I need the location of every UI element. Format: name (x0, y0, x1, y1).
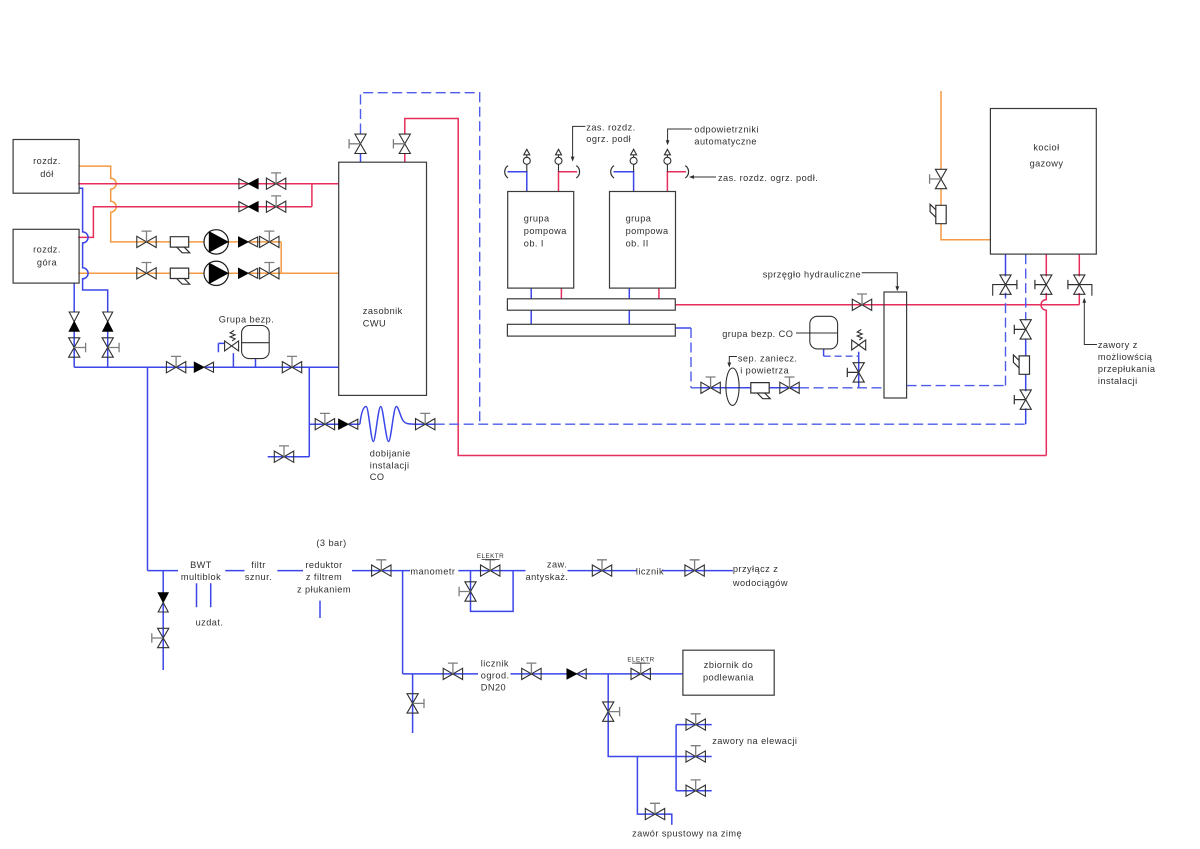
svg-text:(3 bar): (3 bar) (316, 538, 346, 548)
svg-text:antyskaż.: antyskaż. (526, 572, 569, 582)
svg-text:zawór spustowy na zimę: zawór spustowy na zimę (632, 829, 742, 839)
svg-text:CO: CO (370, 472, 385, 482)
svg-text:pompowa: pompowa (626, 226, 669, 236)
svg-text:uzdat.: uzdat. (196, 618, 224, 628)
svg-text:DN20: DN20 (481, 683, 506, 693)
svg-text:gazowy: gazowy (1030, 159, 1064, 169)
svg-text:zas. rozdz.: zas. rozdz. (586, 122, 635, 132)
svg-text:manometr: manometr (410, 567, 455, 577)
svg-text:grupa: grupa (524, 214, 550, 224)
svg-text:automatyczne: automatyczne (694, 137, 757, 147)
svg-text:BWT: BWT (190, 560, 212, 570)
svg-text:kocioł: kocioł (1033, 143, 1059, 153)
svg-text:zawory na elewacji: zawory na elewacji (712, 736, 797, 746)
svg-text:ob. I: ob. I (524, 239, 544, 249)
svg-text:ELEKTR: ELEKTR (627, 657, 654, 664)
svg-text:reduktor: reduktor (305, 560, 342, 570)
svg-text:dół: dół (40, 169, 54, 179)
svg-text:ob. II: ob. II (626, 239, 649, 249)
svg-text:przyłącz z: przyłącz z (733, 564, 778, 574)
svg-text:możliowścią: możliowścią (1098, 352, 1153, 362)
svg-text:sznur.: sznur. (245, 572, 272, 582)
svg-text:licznik: licznik (636, 567, 664, 577)
svg-text:filtr: filtr (251, 560, 266, 570)
svg-text:ogrod.: ogrod. (481, 671, 510, 681)
svg-text:sprzęgło hydrauliczne: sprzęgło hydrauliczne (763, 269, 861, 279)
svg-text:zbiornik do: zbiornik do (704, 660, 753, 670)
svg-text:Grupa bezp.: Grupa bezp. (219, 315, 275, 325)
svg-text:pompowa: pompowa (524, 226, 567, 236)
svg-text:grupa: grupa (626, 214, 652, 224)
svg-text:sep. zaniecz.: sep. zaniecz. (738, 353, 797, 363)
svg-text:zaw.: zaw. (547, 560, 567, 570)
svg-text:instalacji: instalacji (370, 461, 410, 471)
svg-text:CWU: CWU (363, 319, 386, 329)
svg-text:rozdz.: rozdz. (33, 245, 61, 255)
svg-text:rozdz.: rozdz. (33, 156, 61, 166)
svg-text:multiblok: multiblok (181, 572, 221, 582)
svg-text:zawory z: zawory z (1098, 340, 1138, 350)
svg-text:zas. rozdz. ogrz. podł.: zas. rozdz. ogrz. podł. (718, 173, 818, 183)
svg-text:z filtrem: z filtrem (306, 572, 342, 582)
svg-text:odpowietrzniki: odpowietrzniki (694, 125, 759, 135)
svg-text:wodociągów: wodociągów (732, 578, 788, 588)
svg-text:ogrz. podł: ogrz. podł (586, 134, 631, 144)
svg-text:góra: góra (37, 258, 58, 268)
svg-text:podlewania: podlewania (703, 673, 754, 683)
svg-text:przepłukania: przepłukania (1098, 364, 1156, 374)
svg-text:zasobnik: zasobnik (363, 306, 403, 316)
svg-text:z płukaniem: z płukaniem (297, 585, 351, 595)
svg-text:grupa bezp. CO: grupa bezp. CO (722, 329, 793, 339)
svg-text:dobijanie: dobijanie (370, 449, 411, 459)
svg-text:ELEKTR: ELEKTR (477, 553, 504, 560)
svg-text:instalacji: instalacji (1098, 376, 1138, 386)
svg-text:i powietrza: i powietrza (740, 365, 789, 375)
svg-text:licznik: licznik (481, 659, 509, 669)
